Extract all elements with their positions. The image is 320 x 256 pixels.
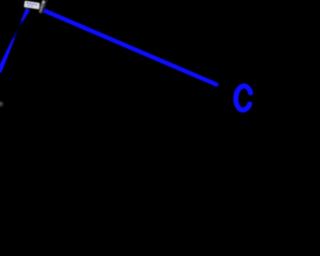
- component body (dark rod with metallic ridges): [39, 0, 45, 13]
- node bead at left edge: [0, 100, 4, 108]
- wire: long segment to node C: [44, 10, 217, 84]
- node C label: [235, 85, 251, 110]
- wire: lower-left segment (tapering, exits left edge): [0, 29, 19, 73]
- wire: upper-left segment (tapering): [18, 8, 30, 27]
- value label box: [24, 1, 40, 10]
